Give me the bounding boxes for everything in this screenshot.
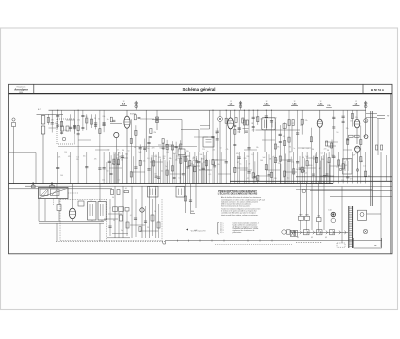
wire	[300, 220, 302, 230]
wire	[196, 158, 198, 183]
wire	[271, 152, 273, 184]
junction	[257, 110, 258, 111]
wire link	[131, 171, 145, 173]
switch row	[113, 207, 118, 212]
svg-text:10n: 10n	[143, 161, 146, 163]
resistor	[252, 173, 254, 178]
capacitor	[56, 124, 59, 126]
wire	[216, 152, 218, 184]
svg-text:220: 220	[176, 158, 179, 160]
capacitor	[252, 126, 255, 128]
dashed AC line 2	[296, 241, 322, 243]
wire	[113, 154, 115, 184]
wire	[274, 122, 276, 152]
svg-text:5n: 5n	[128, 151, 130, 153]
wire	[148, 152, 150, 184]
svg-text:6,3: 6,3	[325, 237, 327, 239]
capacitor	[202, 167, 205, 169]
svg-text:100: 100	[300, 125, 303, 127]
wire	[306, 181, 308, 216]
capacitor	[296, 161, 299, 163]
resistor	[139, 227, 141, 232]
resistor	[61, 121, 63, 126]
capacitor	[73, 127, 76, 129]
wire	[185, 152, 187, 184]
trimmer CT3	[364, 102, 367, 105]
AC wire 2	[330, 195, 392, 197]
wire	[212, 110, 214, 152]
wire	[236, 156, 238, 184]
resistor	[347, 139, 349, 144]
wire	[280, 164, 282, 184]
svg-text:0,1: 0,1	[130, 215, 132, 217]
wire	[204, 155, 206, 183]
svg-text:REP: REP	[299, 214, 302, 216]
motor box	[358, 210, 367, 220]
wire link	[302, 167, 316, 169]
wire	[162, 152, 164, 184]
wire	[139, 144, 141, 152]
svg-text:47k: 47k	[236, 153, 239, 155]
resistor	[113, 159, 115, 164]
wire link	[343, 149, 352, 151]
wire	[169, 160, 171, 183]
capacitor	[326, 173, 329, 175]
capacitor	[195, 160, 198, 162]
svg-text:5n: 5n	[134, 147, 136, 149]
svg-text:2n: 2n	[117, 150, 119, 152]
wire	[320, 156, 322, 183]
wire	[162, 142, 164, 152]
wire link	[240, 169, 252, 171]
wire	[351, 152, 353, 184]
capacitor	[175, 145, 178, 147]
resistor	[117, 160, 119, 165]
wire	[155, 186, 157, 238]
svg-text:10k: 10k	[125, 154, 128, 156]
wire	[333, 110, 335, 152]
svg-text:0,5: 0,5	[147, 158, 149, 160]
svg-text:2: 2	[110, 208, 111, 210]
wire	[141, 186, 143, 238]
wire	[126, 153, 128, 184]
svg-text:220: 220	[186, 151, 189, 153]
dashed AC line	[56, 240, 165, 242]
wire	[351, 110, 353, 126]
wire	[77, 110, 79, 152]
svg-text:22k: 22k	[346, 128, 349, 130]
svg-text:220: 220	[332, 155, 335, 157]
svg-text:50: 50	[159, 147, 161, 149]
capacitor	[98, 167, 101, 169]
capacitor	[134, 217, 137, 219]
svg-text:22k: 22k	[77, 120, 80, 122]
svg-text:47k: 47k	[178, 155, 181, 157]
tube V2 EF41	[228, 118, 234, 129]
svg-text:220: 220	[176, 148, 179, 150]
wire	[206, 159, 208, 184]
wire	[145, 206, 147, 238]
wire	[238, 152, 240, 184]
capacitor	[346, 176, 349, 178]
svg-text:50: 50	[112, 197, 114, 199]
resistor	[328, 158, 330, 163]
resistor	[293, 169, 295, 174]
capacitor	[247, 147, 250, 149]
parts cluster	[111, 190, 114, 195]
svg-text:47k: 47k	[58, 156, 61, 158]
svg-text:0,5 +: 0,5 +	[220, 223, 224, 225]
AVC cluster	[242, 118, 244, 123]
wire	[144, 139, 146, 153]
resistor	[139, 160, 141, 165]
resistor	[130, 172, 132, 177]
wire	[114, 186, 116, 238]
wire link	[78, 139, 91, 141]
capacitor	[147, 168, 150, 170]
wire	[297, 110, 299, 152]
resistor	[225, 118, 227, 123]
resistor	[171, 145, 173, 150]
capacitor	[279, 133, 282, 135]
dotted shield box	[106, 199, 108, 241]
wire	[189, 152, 191, 184]
wire link	[95, 149, 109, 151]
wire mains loop	[353, 238, 355, 248]
svg-text:10k: 10k	[217, 164, 220, 166]
svg-text:10k: 10k	[83, 155, 86, 157]
wire	[279, 125, 281, 152]
coil L1 antenna	[41, 116, 45, 125]
svg-text:220: 220	[158, 157, 161, 159]
wire	[284, 154, 286, 184]
wire	[130, 152, 132, 184]
tube V9	[69, 208, 75, 218]
wire	[301, 110, 303, 134]
wire	[151, 155, 153, 184]
wire	[304, 158, 306, 183]
wire	[155, 154, 157, 183]
svg-text:50: 50	[302, 157, 304, 159]
svg-text:470: 470	[292, 123, 295, 125]
resistor	[157, 222, 160, 228]
wire	[57, 110, 59, 129]
resistor	[365, 171, 367, 176]
wire link	[108, 213, 122, 215]
capacitor	[51, 122, 54, 124]
resistor	[153, 161, 155, 166]
wire link	[176, 155, 190, 157]
wire	[149, 186, 151, 238]
resistor	[77, 126, 79, 131]
svg-text:5nF: 5nF	[173, 153, 176, 155]
resistor pair V2	[235, 118, 237, 123]
resistor R41	[292, 120, 294, 126]
wire	[38, 199, 40, 222]
capacitor	[213, 165, 216, 167]
tube V4 EL41	[354, 119, 360, 128]
heater box 2	[317, 230, 323, 235]
wire	[185, 184, 187, 213]
capacitor	[238, 127, 241, 129]
wire	[103, 110, 105, 132]
fuse box 2	[296, 230, 298, 236]
tube V3 EBC41	[317, 119, 322, 127]
wire	[290, 157, 292, 184]
wire	[107, 237, 130, 239]
wire	[122, 152, 124, 184]
heater box 3	[330, 230, 335, 235]
resistor	[315, 157, 317, 162]
wire link	[320, 175, 334, 177]
capacitor	[216, 130, 219, 132]
wire link	[158, 144, 172, 146]
wire	[310, 152, 312, 184]
wire link	[266, 169, 280, 171]
wire link	[130, 224, 145, 226]
selector X	[363, 229, 368, 234]
tube V5 GZ40	[355, 146, 360, 152]
capacitor	[143, 147, 146, 149]
wire	[91, 114, 93, 128]
wire	[257, 110, 259, 125]
wire	[271, 110, 273, 152]
wire link	[330, 165, 342, 167]
wire	[318, 181, 320, 217]
resistor	[274, 144, 276, 149]
wire jog	[162, 241, 163, 245]
capacitor	[144, 220, 147, 222]
wire link	[116, 157, 128, 159]
svg-text:0,5 +: 0,5 +	[220, 232, 224, 234]
capacitor	[155, 175, 158, 177]
wire	[326, 153, 328, 183]
svg-text:0,1: 0,1	[125, 188, 127, 190]
wire	[166, 162, 168, 184]
trimmer CT2	[239, 102, 242, 105]
junction blob	[51, 183, 53, 185]
svg-text:L10: L10	[329, 210, 332, 212]
svg-text:470: 470	[152, 147, 155, 149]
wire	[347, 152, 349, 184]
wire	[300, 181, 302, 216]
wire	[366, 117, 377, 119]
HT arrow 2	[377, 118, 385, 120]
wire	[153, 152, 155, 184]
capacitor	[77, 133, 80, 135]
resistor	[120, 215, 123, 221]
wire link	[218, 173, 231, 175]
svg-text:0,5 +: 0,5 +	[220, 230, 224, 232]
frame inner right border	[390, 94, 392, 254]
wire	[180, 152, 182, 184]
wire	[126, 211, 128, 236]
capacitor	[346, 138, 349, 140]
wire	[91, 220, 93, 221]
svg-text:100: 100	[310, 165, 313, 167]
svg-text:47k: 47k	[68, 156, 71, 158]
wire	[360, 126, 362, 153]
svg-text:47k: 47k	[117, 154, 120, 156]
svg-text:10k: 10k	[289, 151, 292, 153]
junction	[253, 110, 254, 111]
chassis bus 2	[25, 185, 230, 187]
svg-text:Voir les instructions de mise: Voir les instructions de mise au point.	[221, 205, 250, 208]
svg-text:6,3: 6,3	[311, 237, 313, 239]
IF can T5	[88, 202, 96, 220]
parts cluster right	[376, 145, 378, 150]
title bar bottom rule	[9, 93, 393, 95]
svg-text:470: 470	[201, 158, 204, 160]
wire	[190, 184, 192, 213]
capacitor	[147, 141, 150, 143]
capacitor	[233, 144, 236, 146]
wire	[158, 204, 160, 238]
junction	[212, 110, 213, 111]
parts cluster osc	[150, 129, 152, 134]
resistor	[360, 157, 362, 162]
wire	[342, 152, 344, 184]
lamp P3	[302, 189, 306, 193]
wire	[320, 161, 322, 184]
capacitor	[254, 176, 257, 178]
svg-text:47k: 47k	[226, 149, 229, 151]
phono jack PU	[282, 230, 286, 234]
wire top HT bus	[49, 109, 367, 111]
indicator P1	[218, 117, 223, 122]
wire link	[140, 118, 154, 120]
wire	[297, 152, 299, 184]
wire	[135, 199, 137, 237]
wire	[99, 184, 101, 202]
wire	[39, 222, 104, 224]
capacitor	[332, 126, 335, 128]
wire	[329, 160, 331, 183]
wire	[44, 199, 46, 222]
resistor	[257, 117, 259, 122]
svg-text:5nF: 5nF	[138, 152, 141, 154]
wire	[108, 152, 110, 184]
wire	[166, 140, 168, 152]
capacitor	[252, 116, 255, 118]
svg-text:100: 100	[260, 160, 263, 162]
wire	[175, 152, 177, 184]
wire	[347, 110, 349, 152]
wire link	[235, 167, 248, 169]
wire	[326, 161, 328, 183]
capacitor	[332, 155, 335, 157]
harness wire	[230, 186, 392, 188]
wire link	[212, 159, 226, 161]
wire	[288, 152, 290, 184]
capacitor	[332, 116, 335, 118]
svg-text:0,1: 0,1	[321, 153, 323, 155]
wire	[380, 214, 382, 247]
svg-text:10k: 10k	[328, 147, 331, 149]
capacitor	[189, 199, 192, 201]
wire	[61, 110, 63, 134]
svg-text:470: 470	[55, 123, 58, 125]
wire	[293, 162, 295, 184]
capacitor	[197, 161, 200, 163]
svg-text:47k: 47k	[166, 152, 169, 154]
grid cap 1	[339, 168, 342, 171]
chassis bus main	[9, 183, 334, 185]
svg-text:50: 50	[302, 148, 304, 150]
resistor	[184, 196, 186, 201]
cable shield b	[371, 111, 373, 206]
HT arrow 1	[377, 115, 385, 117]
resistor	[180, 158, 182, 163]
svg-text:50: 50	[336, 132, 338, 134]
bus right upper	[296, 176, 392, 178]
wire	[329, 164, 331, 183]
svg-text:0,5 +: 0,5 +	[220, 228, 224, 230]
coupling box	[78, 201, 84, 206]
capacitor	[299, 167, 302, 169]
wire	[172, 141, 174, 152]
svg-text:5n: 5n	[121, 230, 123, 232]
wire link	[306, 157, 318, 159]
trimmer bank	[32, 185, 36, 188]
capacitor	[312, 173, 315, 175]
svg-text:22k: 22k	[305, 120, 308, 122]
capacitor C30	[283, 124, 286, 129]
wire	[234, 152, 236, 184]
capacitor	[103, 167, 106, 169]
capacitor	[121, 155, 124, 157]
wire	[56, 184, 58, 199]
wire	[360, 152, 362, 184]
svg-text:220: 220	[212, 150, 215, 152]
wire long output	[165, 240, 382, 242]
wire	[194, 152, 196, 184]
bus right	[230, 180, 392, 182]
output transformer T4	[148, 187, 159, 198]
wire	[216, 128, 218, 152]
wire	[342, 110, 344, 152]
resistor	[166, 170, 168, 175]
capacitor	[296, 132, 299, 134]
svg-text:22k: 22k	[229, 122, 232, 124]
heater box 1	[304, 230, 310, 235]
wire	[122, 186, 124, 238]
grid cap 3	[302, 170, 305, 173]
svg-text:470: 470	[237, 131, 240, 133]
wire	[328, 152, 330, 184]
wire	[306, 152, 308, 184]
wire	[139, 152, 141, 184]
capacitor	[279, 141, 282, 143]
resistor	[234, 167, 236, 172]
wire	[110, 155, 112, 183]
wire	[201, 163, 203, 184]
wire	[234, 110, 236, 152]
capacitor	[56, 115, 59, 117]
svg-text:22k: 22k	[355, 117, 358, 119]
oscillator box	[203, 137, 214, 147]
resistor	[301, 119, 303, 124]
bus left lower	[9, 188, 113, 190]
wire	[366, 113, 377, 115]
wire link	[298, 147, 311, 149]
wire	[172, 152, 174, 184]
resistor	[284, 141, 286, 146]
capacitor	[94, 124, 97, 126]
wire	[99, 110, 101, 152]
dotted line	[215, 243, 292, 245]
wire	[74, 110, 76, 133]
